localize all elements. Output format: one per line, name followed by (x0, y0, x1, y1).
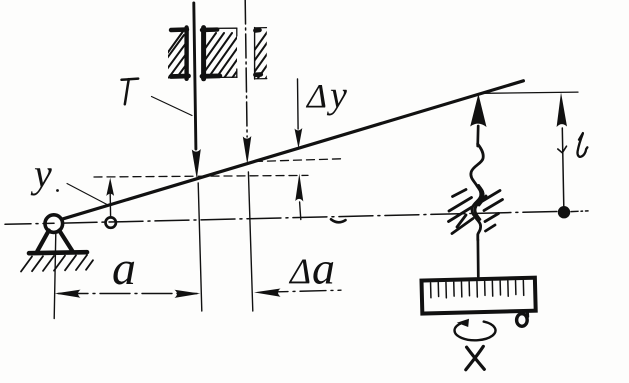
svg-text:y: y (30, 151, 52, 196)
svg-text:y: y (326, 75, 347, 117)
svg-text:a: a (112, 242, 136, 295)
svg-text:Δ: Δ (305, 78, 327, 115)
svg-text:a: a (312, 243, 335, 294)
svg-text:Δ: Δ (288, 251, 311, 291)
